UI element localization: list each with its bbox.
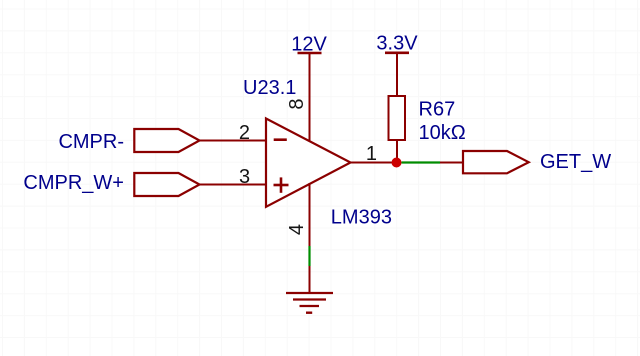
svg-text:3: 3 bbox=[239, 166, 250, 188]
svg-text:10kΩ: 10kΩ bbox=[419, 122, 466, 144]
svg-text:12V: 12V bbox=[291, 34, 327, 56]
svg-text:2: 2 bbox=[239, 122, 250, 144]
svg-text:4: 4 bbox=[286, 224, 308, 235]
svg-text:U23.1: U23.1 bbox=[243, 77, 296, 99]
svg-text:3.3V: 3.3V bbox=[376, 33, 418, 55]
svg-text:8: 8 bbox=[286, 99, 308, 110]
svg-text:GET_W: GET_W bbox=[540, 151, 611, 173]
svg-text:CMPR-: CMPR- bbox=[58, 131, 124, 153]
svg-text:R67: R67 bbox=[419, 99, 456, 121]
svg-text:CMPR_W+: CMPR_W+ bbox=[23, 172, 124, 194]
svg-text:1: 1 bbox=[366, 143, 377, 165]
svg-text:LM393: LM393 bbox=[331, 206, 392, 228]
